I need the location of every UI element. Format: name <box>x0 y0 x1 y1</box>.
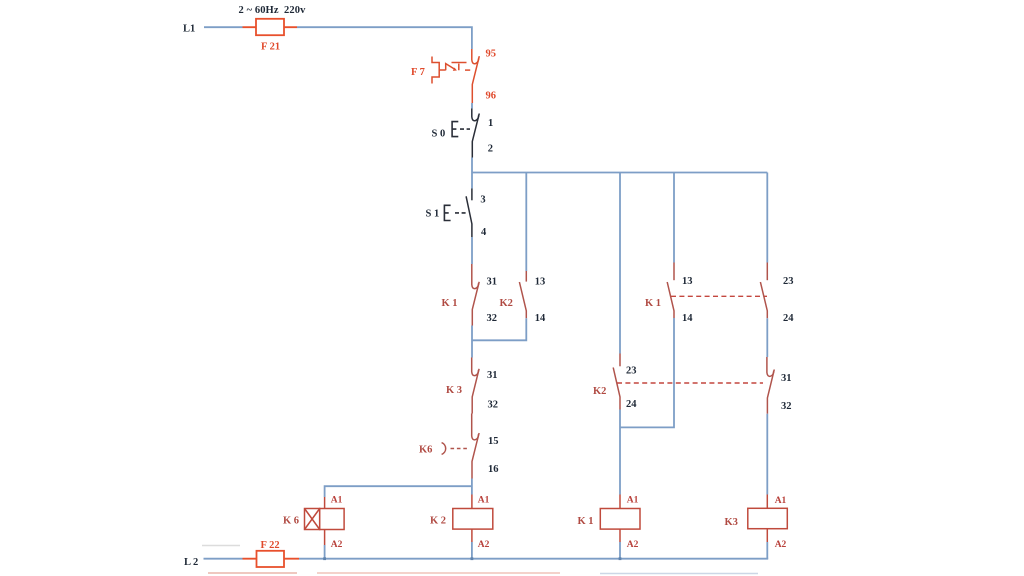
label 32 (right) <box>781 401 792 412</box>
wire F7 to S0 <box>471 103 473 109</box>
svg-text:K 1: K 1 <box>578 516 594 527</box>
K6 timer half-moon <box>442 443 470 455</box>
label S0 <box>432 129 446 140</box>
label 2~60Hz 220v <box>239 5 307 16</box>
wire branch bus to K2 23 <box>619 173 621 354</box>
svg-text:16: 16 <box>488 464 499 475</box>
S0 actuator E <box>452 122 470 137</box>
svg-text:1: 1 <box>488 118 493 129</box>
label A2 (K6 coil) <box>331 540 343 550</box>
label 16 <box>488 464 499 475</box>
coil K1 <box>600 495 640 543</box>
label 13 <box>535 277 546 288</box>
fuse F22 <box>257 551 285 567</box>
coil K3 <box>748 495 788 543</box>
wire K2 coil to L2 <box>471 542 473 559</box>
mechanical link K2 dashed <box>617 382 763 384</box>
wire branch bus to K1 13 <box>673 173 675 263</box>
wire branch to K2 13 <box>525 173 527 272</box>
label K1 (coil) <box>578 516 594 527</box>
label 32 <box>487 313 498 324</box>
label A2 (K2 coil) <box>478 540 490 550</box>
fuse F21 <box>256 19 284 35</box>
label S1 <box>426 209 440 220</box>
svg-text:K6: K6 <box>419 445 432 456</box>
svg-text:4: 4 <box>481 227 487 238</box>
svg-text:K 1: K 1 <box>442 298 458 309</box>
wire branch bus to 23-24 right <box>766 173 768 263</box>
label A2 (K1 coil) <box>627 540 639 550</box>
svg-text:A2: A2 <box>331 540 343 550</box>
svg-text:15: 15 <box>488 436 499 447</box>
wire L2 rail left of fuse <box>204 558 243 560</box>
contact K2 NC 31-32 (right) <box>767 357 774 414</box>
svg-text:F 21: F 21 <box>261 42 280 53</box>
S1 actuator E <box>444 205 466 220</box>
svg-text:K 2: K 2 <box>430 516 446 527</box>
label 1 <box>488 118 493 129</box>
contact K2 NO 13-14 <box>519 271 526 318</box>
svg-text:24: 24 <box>783 313 794 324</box>
svg-text:32: 32 <box>488 400 499 411</box>
svg-text:24: 24 <box>626 399 637 410</box>
contact K6 timed NC 15-16 <box>472 416 479 479</box>
contact K3 NC 31-32 <box>472 358 479 414</box>
svg-text:K 3: K 3 <box>446 385 462 396</box>
top bus rail <box>472 172 767 174</box>
svg-text:14: 14 <box>535 313 546 324</box>
label 31 (right) <box>781 373 792 384</box>
overload contact F7 (NC 95-96) <box>472 49 480 103</box>
svg-text:31: 31 <box>781 373 792 384</box>
coil K2 <box>453 495 493 543</box>
label 31 (K3) <box>487 370 498 381</box>
svg-text:2: 2 <box>488 144 493 155</box>
wire S1 to K1 contact <box>471 237 473 264</box>
label K3 <box>446 385 462 396</box>
label 3 <box>480 195 485 206</box>
label A2 (K3 coil) <box>775 540 787 550</box>
wire K1-32 down to join <box>471 326 473 358</box>
contact K2 NO 23-24 <box>613 354 620 410</box>
svg-text:32: 32 <box>487 313 498 324</box>
svg-text:31: 31 <box>487 277 498 288</box>
pushbutton S1 (NO 3-4) <box>466 189 472 238</box>
wire through fuse F21 <box>243 26 298 28</box>
svg-text:S 0: S 0 <box>432 129 446 140</box>
wire junction to K6 coil branch <box>325 486 472 497</box>
label 14 <box>535 313 546 324</box>
svg-text:K2: K2 <box>593 386 606 397</box>
label K2 (23-24) <box>593 386 606 397</box>
contact K1 NO 13-14 <box>667 263 674 319</box>
svg-text:A1: A1 <box>627 496 639 506</box>
label F22 <box>261 540 280 551</box>
svg-text:K 1: K 1 <box>645 298 661 309</box>
label 15 <box>488 436 499 447</box>
coil K6 (timer, crossed box) <box>305 497 345 545</box>
label K6 (coil) <box>283 516 299 527</box>
svg-text:A1: A1 <box>478 496 490 506</box>
label 32 (K3) <box>488 400 499 411</box>
label 23 (K2) <box>626 366 637 377</box>
mechanical link K1 dashed <box>671 295 767 297</box>
svg-text:A2: A2 <box>627 540 639 550</box>
svg-text:A1: A1 <box>775 496 787 506</box>
svg-text:3: 3 <box>480 195 485 206</box>
label K6 (contact) <box>419 445 432 456</box>
wire 24 to 31 contact <box>766 318 768 357</box>
svg-text:F 7: F 7 <box>411 67 425 78</box>
wire join 674 to 620 <box>620 318 674 427</box>
node L1 label <box>183 24 195 35</box>
ghost artifact lines bottom <box>202 546 758 574</box>
svg-text:13: 13 <box>682 276 693 287</box>
svg-text:S 1: S 1 <box>426 209 440 220</box>
label A1 (K1 coil) <box>627 496 639 506</box>
label A1 (K2 coil) <box>478 496 490 506</box>
wire K1 coil to L2 <box>619 542 621 559</box>
label 2 <box>488 144 493 155</box>
label 14 (K1) <box>682 313 693 324</box>
svg-text:A2: A2 <box>478 540 490 550</box>
wire K6-16 to junction <box>471 479 473 495</box>
label 13 (K1) <box>682 276 693 287</box>
svg-text:A2: A2 <box>775 540 787 550</box>
svg-text:13: 13 <box>535 277 546 288</box>
label 23 (right) <box>783 276 794 287</box>
svg-text:L1: L1 <box>183 24 195 35</box>
svg-text:2 ~ 60Hz 220v: 2 ~ 60Hz 220v <box>239 5 307 16</box>
label A1 (K6 coil) <box>331 496 343 506</box>
label 96 <box>486 91 497 102</box>
label K1 (left contact) <box>442 298 458 309</box>
pushbutton S0 (NC 1-2) <box>472 109 480 158</box>
svg-text:31: 31 <box>487 370 498 381</box>
label 4 <box>481 227 487 238</box>
wire S0 to S1 with top bus junction <box>471 158 473 189</box>
label 95 <box>486 49 497 60</box>
svg-text:K3: K3 <box>725 517 738 528</box>
label K1 (13-14) <box>645 298 661 309</box>
svg-text:14: 14 <box>682 313 693 324</box>
wire K3 to K6 contact (red) <box>471 414 473 417</box>
label F7 <box>411 67 425 78</box>
svg-text:K 6: K 6 <box>283 516 299 527</box>
svg-text:23: 23 <box>783 276 794 287</box>
wire through fuse F22 <box>243 558 300 560</box>
wire K2-24 down to junction <box>619 410 621 495</box>
node L2 label <box>184 557 198 568</box>
wire K2-14 down and join across <box>472 318 526 340</box>
label K3 (coil) <box>725 517 738 528</box>
wire L2 rail right of fuse <box>299 558 768 560</box>
wire 32 down to K3 coil <box>766 414 768 495</box>
svg-text:32: 32 <box>781 401 792 412</box>
svg-text:23: 23 <box>626 366 637 377</box>
wire K6 coil to L2 <box>324 545 326 559</box>
label 24 (K2) <box>626 399 637 410</box>
svg-text:L 2: L 2 <box>184 557 198 568</box>
svg-text:96: 96 <box>486 91 497 102</box>
label K2 (13-14) <box>500 298 513 309</box>
label 24 (right) <box>783 313 794 324</box>
wire K3 coil to L2 corner <box>766 542 768 559</box>
wire L1 rail right of fuse to corner <box>297 27 472 49</box>
svg-text:F 22: F 22 <box>261 540 280 551</box>
F7 trip device symbol <box>432 57 470 84</box>
wire L1 rail left of fuse <box>204 26 243 28</box>
junction dots L2 <box>323 557 621 560</box>
label K2 (coil) <box>430 516 446 527</box>
svg-text:K2: K2 <box>500 298 513 309</box>
contact K1 NO 23-24 (right) <box>760 263 767 319</box>
label 31 <box>487 277 498 288</box>
contact K1 NC 31-32 <box>472 264 479 326</box>
svg-text:95: 95 <box>486 49 497 60</box>
svg-text:A1: A1 <box>331 496 343 506</box>
label F21 <box>261 42 280 53</box>
label A1 (K3 coil) <box>775 496 787 506</box>
